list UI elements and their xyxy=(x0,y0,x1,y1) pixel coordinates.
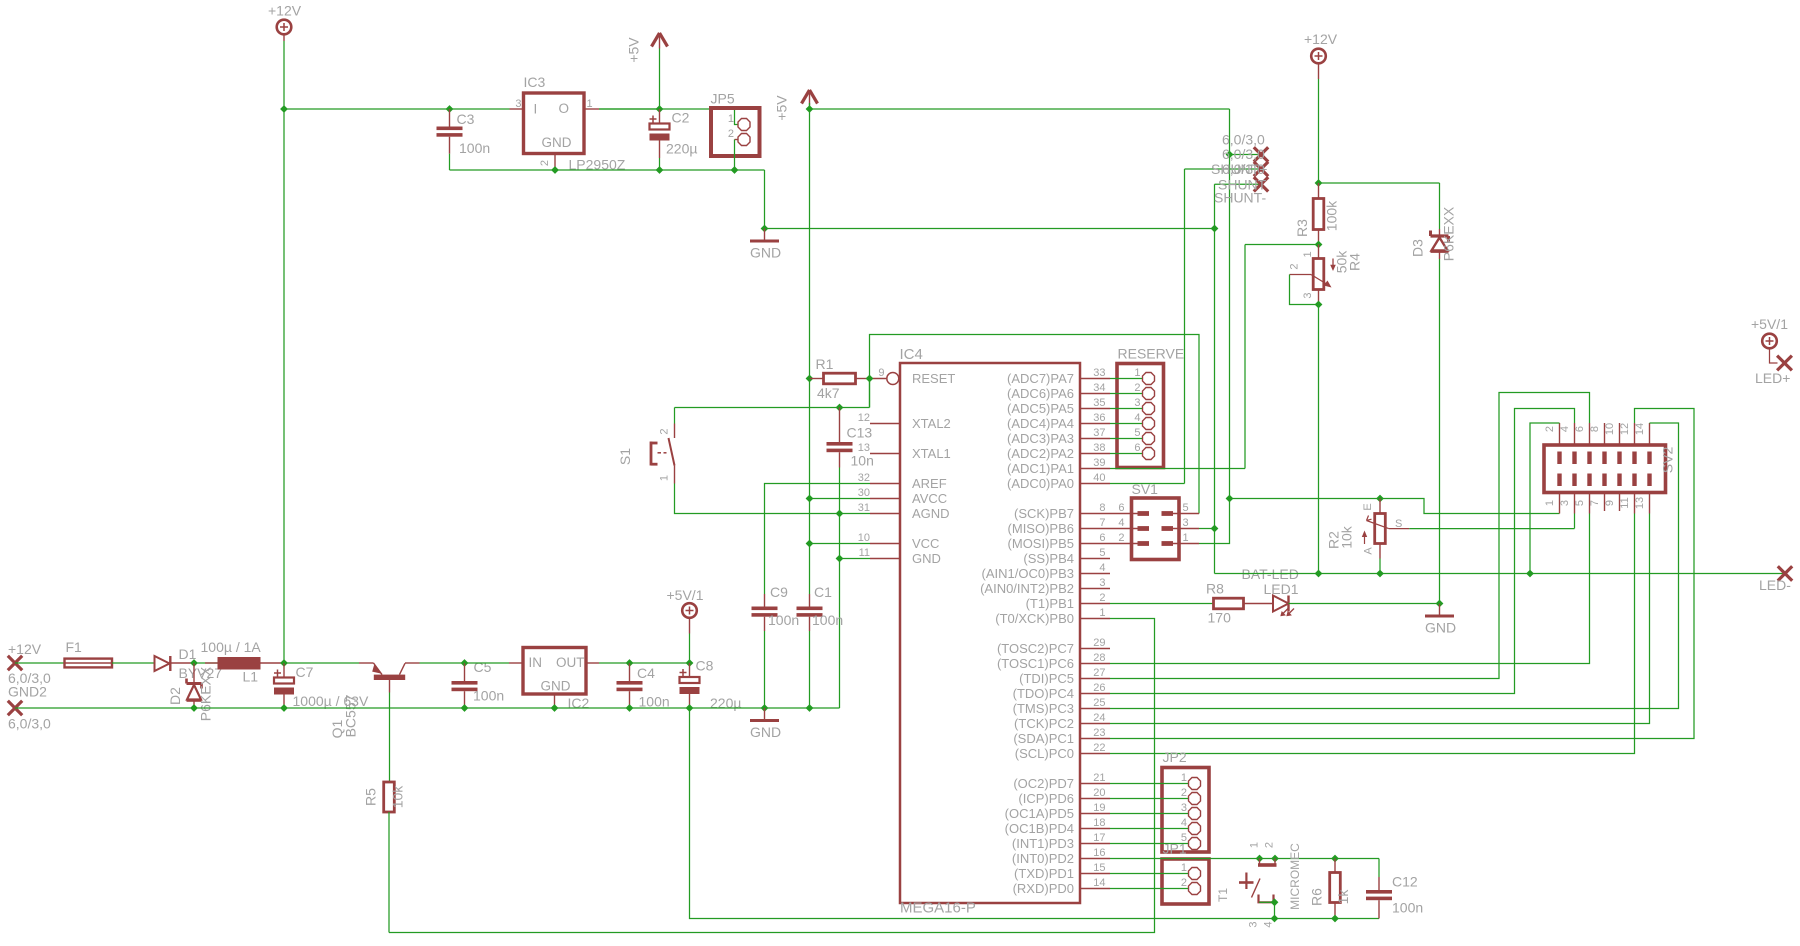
svg-text:10: 10 xyxy=(1604,423,1616,435)
svg-text:(OC1B)PD4: (OC1B)PD4 xyxy=(1005,821,1074,836)
svg-text:(TDO)PC4: (TDO)PC4 xyxy=(1013,686,1074,701)
svg-text:10: 10 xyxy=(858,532,870,544)
svg-text:C5: C5 xyxy=(474,659,492,675)
svg-text:RESET: RESET xyxy=(912,371,955,386)
svg-text:11: 11 xyxy=(1619,497,1631,508)
svg-text:21: 21 xyxy=(1093,772,1105,784)
svg-text:4: 4 xyxy=(1263,921,1275,927)
svg-text:(SCK)PB7: (SCK)PB7 xyxy=(1014,506,1074,521)
svg-text:(ADC7)PA7: (ADC7)PA7 xyxy=(1007,371,1074,386)
svg-text:3: 3 xyxy=(1559,500,1571,506)
svg-text:2: 2 xyxy=(1264,842,1276,848)
svg-text:(TDI)PC5: (TDI)PC5 xyxy=(1019,671,1074,686)
svg-text:(SCL)PC0: (SCL)PC0 xyxy=(1015,746,1074,761)
svg-text:+12V: +12V xyxy=(1304,31,1338,47)
svg-text:1: 1 xyxy=(587,98,593,110)
svg-text:R5: R5 xyxy=(363,788,379,806)
svg-text:39: 39 xyxy=(1093,457,1105,469)
svg-text:5: 5 xyxy=(1183,502,1189,514)
svg-text:2: 2 xyxy=(539,160,551,166)
svg-text:(AIN0/INT2)PB2: (AIN0/INT2)PB2 xyxy=(980,581,1074,596)
svg-text:1: 1 xyxy=(1302,251,1314,257)
svg-text:2: 2 xyxy=(1181,787,1187,799)
svg-text:AVCC: AVCC xyxy=(912,491,947,506)
svg-text:2: 2 xyxy=(1544,426,1556,432)
svg-text:25: 25 xyxy=(1093,697,1105,709)
svg-text:7: 7 xyxy=(1099,517,1105,529)
svg-text:17: 17 xyxy=(1093,832,1105,844)
svg-text:R6: R6 xyxy=(1309,888,1325,906)
svg-text:8: 8 xyxy=(1589,426,1601,432)
svg-text:JP5: JP5 xyxy=(711,91,735,107)
svg-text:(TMS)PC3: (TMS)PC3 xyxy=(1013,701,1074,716)
svg-text:100µ / 1A: 100µ / 1A xyxy=(201,639,262,655)
svg-text:2: 2 xyxy=(728,128,734,140)
svg-text:1: 1 xyxy=(1134,367,1140,379)
svg-text:GND: GND xyxy=(750,245,781,261)
svg-text:D2: D2 xyxy=(167,687,183,705)
svg-text:6: 6 xyxy=(1574,426,1586,432)
svg-text:C8: C8 xyxy=(696,658,714,674)
svg-text:LED-: LED- xyxy=(1759,577,1791,593)
svg-text:3: 3 xyxy=(1099,577,1105,589)
svg-text:O: O xyxy=(559,101,570,116)
svg-text:R4: R4 xyxy=(1347,253,1363,271)
svg-text:(ADC6)PA6: (ADC6)PA6 xyxy=(1007,386,1074,401)
svg-text:3: 3 xyxy=(1181,802,1187,814)
svg-text:(TCK)PC2: (TCK)PC2 xyxy=(1014,716,1074,731)
svg-text:38: 38 xyxy=(1093,442,1105,454)
svg-text:L1: L1 xyxy=(243,669,259,685)
svg-text:C13: C13 xyxy=(847,425,873,441)
svg-text:R8: R8 xyxy=(1206,581,1224,597)
svg-text:10n: 10n xyxy=(851,453,874,469)
svg-text:220µ: 220µ xyxy=(666,141,697,157)
svg-text:1: 1 xyxy=(728,113,734,125)
svg-text:(ADC0)PA0: (ADC0)PA0 xyxy=(1007,476,1074,491)
svg-text:(AIN1/OC0)PB3: (AIN1/OC0)PB3 xyxy=(982,566,1074,581)
svg-text:19: 19 xyxy=(1093,802,1105,814)
svg-text:(SDA)PC1: (SDA)PC1 xyxy=(1013,731,1074,746)
svg-text:1: 1 xyxy=(1544,500,1556,506)
svg-text:23: 23 xyxy=(1093,727,1105,739)
svg-text:40: 40 xyxy=(1093,472,1105,484)
svg-text:36: 36 xyxy=(1093,412,1105,424)
svg-text:R3: R3 xyxy=(1294,219,1310,237)
svg-text:C12: C12 xyxy=(1392,874,1418,890)
svg-text:1: 1 xyxy=(1181,862,1187,874)
svg-text:1: 1 xyxy=(659,475,671,481)
svg-text:IC4: IC4 xyxy=(900,346,923,363)
svg-text:9: 9 xyxy=(878,367,884,379)
svg-text:37: 37 xyxy=(1093,427,1105,439)
svg-text:1: 1 xyxy=(1099,607,1105,619)
svg-text:I: I xyxy=(534,102,538,117)
svg-text:2: 2 xyxy=(1118,532,1124,544)
svg-text:(INT1)PD3: (INT1)PD3 xyxy=(1012,836,1074,851)
svg-text:XTAL1: XTAL1 xyxy=(912,446,951,461)
svg-text:29: 29 xyxy=(1093,637,1105,649)
svg-text:100n: 100n xyxy=(473,688,504,704)
svg-text:C9: C9 xyxy=(770,584,788,600)
svg-text:10k: 10k xyxy=(390,785,406,809)
svg-text:6,0/3,0: 6,0/3,0 xyxy=(1222,146,1265,162)
svg-text:(TOSC2)PC7: (TOSC2)PC7 xyxy=(997,641,1074,656)
svg-text:(TXD)PD1: (TXD)PD1 xyxy=(1014,866,1074,881)
svg-text:5: 5 xyxy=(1099,547,1105,559)
svg-text:AGND: AGND xyxy=(912,506,950,521)
svg-text:28: 28 xyxy=(1093,652,1105,664)
svg-text:2: 2 xyxy=(1289,264,1301,270)
svg-text:4: 4 xyxy=(1134,412,1140,424)
svg-text:10k: 10k xyxy=(1339,525,1355,549)
svg-text:4: 4 xyxy=(1099,562,1105,574)
svg-text:(SS)PB4: (SS)PB4 xyxy=(1023,551,1074,566)
svg-text:13: 13 xyxy=(1634,497,1646,509)
svg-text:6,0/3,0: 6,0/3,0 xyxy=(1222,161,1265,177)
svg-text:14: 14 xyxy=(1634,423,1646,435)
svg-text:1: 1 xyxy=(1249,842,1261,848)
svg-text:24: 24 xyxy=(1093,712,1105,724)
svg-text:(T0/XCK)PB0: (T0/XCK)PB0 xyxy=(995,611,1074,626)
svg-text:GND: GND xyxy=(912,551,941,566)
svg-text:9: 9 xyxy=(1604,500,1616,506)
svg-text:(OC2)PD7: (OC2)PD7 xyxy=(1013,776,1074,791)
svg-text:3: 3 xyxy=(1248,921,1260,927)
svg-text:4: 4 xyxy=(1118,517,1124,529)
svg-text:4k7: 4k7 xyxy=(817,385,840,401)
svg-text:3: 3 xyxy=(515,98,521,110)
svg-text:BC557: BC557 xyxy=(343,694,359,737)
svg-text:15: 15 xyxy=(1093,862,1105,874)
svg-text:(OC1A)PD5: (OC1A)PD5 xyxy=(1005,806,1074,821)
svg-text:1: 1 xyxy=(1181,772,1187,784)
svg-text:P6KEXX: P6KEXX xyxy=(1441,206,1457,261)
svg-text:100n: 100n xyxy=(768,612,799,628)
svg-text:P6KEXX: P6KEXX xyxy=(198,666,214,721)
svg-text:18: 18 xyxy=(1093,817,1105,829)
svg-text:32: 32 xyxy=(858,472,870,484)
svg-text:2: 2 xyxy=(1134,382,1140,394)
svg-text:IC3: IC3 xyxy=(524,74,546,90)
svg-text:+5V/1: +5V/1 xyxy=(1751,316,1788,332)
svg-text:SV1: SV1 xyxy=(1132,481,1159,497)
svg-text:GND2: GND2 xyxy=(8,684,47,700)
svg-text:JP1: JP1 xyxy=(1163,841,1187,857)
svg-text:+5V: +5V xyxy=(626,37,642,63)
svg-text:2: 2 xyxy=(1099,592,1105,604)
svg-text:JP2: JP2 xyxy=(1163,749,1187,765)
svg-text:(ADC3)PA3: (ADC3)PA3 xyxy=(1007,431,1074,446)
svg-text:4: 4 xyxy=(1181,817,1187,829)
svg-text:3: 3 xyxy=(1134,397,1140,409)
svg-text:6,0/3,0: 6,0/3,0 xyxy=(8,716,51,732)
svg-text:1: 1 xyxy=(1183,532,1189,544)
svg-text:100n: 100n xyxy=(1392,900,1423,916)
svg-text:14: 14 xyxy=(1093,877,1105,889)
svg-text:20: 20 xyxy=(1093,787,1105,799)
svg-text:GND: GND xyxy=(750,724,781,740)
svg-text:LED1: LED1 xyxy=(1264,581,1299,597)
svg-text:C3: C3 xyxy=(457,111,475,127)
svg-text:XTAL2: XTAL2 xyxy=(912,416,951,431)
svg-text:100k: 100k xyxy=(1324,200,1340,231)
svg-text:SV2: SV2 xyxy=(1660,447,1676,474)
svg-text:(MISO)PB6: (MISO)PB6 xyxy=(1008,521,1074,536)
svg-text:12: 12 xyxy=(858,412,870,424)
svg-text:5: 5 xyxy=(1574,500,1586,506)
svg-text:170: 170 xyxy=(1208,610,1232,626)
svg-text:C2: C2 xyxy=(672,110,690,126)
svg-text:35: 35 xyxy=(1093,397,1105,409)
svg-text:GND: GND xyxy=(1425,620,1456,636)
svg-text:3: 3 xyxy=(1302,293,1314,299)
svg-text:22: 22 xyxy=(1093,742,1105,754)
svg-text:LED+: LED+ xyxy=(1755,370,1790,386)
svg-text:27: 27 xyxy=(1093,667,1105,679)
svg-text:(ADC1)PA1: (ADC1)PA1 xyxy=(1007,461,1074,476)
svg-text:+5V: +5V xyxy=(774,95,790,121)
svg-text:(ADC4)PA4: (ADC4)PA4 xyxy=(1007,416,1074,431)
svg-text:(RXD)PD0: (RXD)PD0 xyxy=(1013,881,1074,896)
svg-text:SHUNT-: SHUNT- xyxy=(1214,190,1266,206)
svg-text:30: 30 xyxy=(858,487,870,499)
svg-text:RESERVE: RESERVE xyxy=(1118,346,1185,362)
svg-text:11: 11 xyxy=(859,547,870,559)
svg-text:MICROMEC: MICROMEC xyxy=(1288,843,1302,910)
svg-text:T1: T1 xyxy=(1216,888,1230,902)
svg-text:GND: GND xyxy=(542,135,572,150)
svg-text:+12V: +12V xyxy=(8,641,42,657)
svg-text:2: 2 xyxy=(1181,877,1187,889)
svg-text:(ICP)PD6: (ICP)PD6 xyxy=(1018,791,1074,806)
svg-text:6: 6 xyxy=(1118,502,1124,514)
svg-text:100n: 100n xyxy=(639,694,670,710)
svg-text:AREF: AREF xyxy=(912,476,947,491)
svg-text:F1: F1 xyxy=(66,639,83,655)
svg-text:1k: 1k xyxy=(1335,889,1351,905)
svg-text:OUT: OUT xyxy=(556,655,585,670)
svg-text:6: 6 xyxy=(1099,532,1105,544)
svg-text:100n: 100n xyxy=(459,140,490,156)
svg-text:IN: IN xyxy=(529,655,543,670)
svg-text:(MOSI)PB5: (MOSI)PB5 xyxy=(1008,536,1074,551)
svg-text:6: 6 xyxy=(1134,442,1140,454)
svg-text:+5V/1: +5V/1 xyxy=(667,587,704,603)
svg-text:S1: S1 xyxy=(617,448,633,465)
svg-text:2: 2 xyxy=(659,428,671,434)
svg-text:3: 3 xyxy=(1183,517,1189,529)
svg-text:C4: C4 xyxy=(637,665,655,681)
svg-text:31: 31 xyxy=(858,502,870,514)
svg-text:4: 4 xyxy=(1559,426,1571,432)
svg-text:7: 7 xyxy=(1589,500,1601,506)
svg-text:A: A xyxy=(1363,547,1375,555)
svg-text:VCC: VCC xyxy=(912,536,939,551)
svg-text:+12V: +12V xyxy=(268,3,302,19)
svg-text:5: 5 xyxy=(1134,427,1140,439)
svg-text:(TOSC1)PC6: (TOSC1)PC6 xyxy=(997,656,1074,671)
svg-text:8: 8 xyxy=(1099,502,1105,514)
svg-text:E: E xyxy=(1362,503,1374,510)
svg-text:12: 12 xyxy=(1619,423,1631,435)
svg-text:(INT0)PD2: (INT0)PD2 xyxy=(1012,851,1074,866)
svg-text:GND: GND xyxy=(541,679,571,694)
svg-text:D3: D3 xyxy=(1410,239,1426,257)
svg-text:C1: C1 xyxy=(814,584,832,600)
svg-text:(T1)PB1: (T1)PB1 xyxy=(1026,596,1074,611)
svg-text:33: 33 xyxy=(1093,367,1105,379)
svg-text:MEGA16-P: MEGA16-P xyxy=(900,900,976,917)
svg-text:26: 26 xyxy=(1093,682,1105,694)
svg-text:(ADC5)PA5: (ADC5)PA5 xyxy=(1007,401,1074,416)
svg-text:16: 16 xyxy=(1093,847,1105,859)
svg-text:C7: C7 xyxy=(296,664,314,680)
svg-text:100n: 100n xyxy=(812,612,843,628)
svg-text:R1: R1 xyxy=(816,356,834,372)
svg-text:(ADC2)PA2: (ADC2)PA2 xyxy=(1007,446,1074,461)
svg-text:34: 34 xyxy=(1093,382,1105,394)
